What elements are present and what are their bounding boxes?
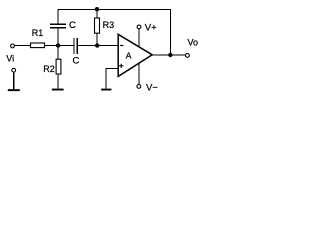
resistor R3	[95, 18, 100, 33]
svg-text:V+: V+	[145, 22, 157, 33]
wire node A to C2	[58, 45, 74, 47]
ground bar for + input	[101, 89, 111, 91]
wire C1 to top rail	[57, 9, 59, 24]
wire node A up to C1	[57, 28, 59, 46]
input terminal Vi	[11, 44, 15, 48]
V- terminal lead	[138, 63, 140, 84]
wire R1 to node A	[45, 45, 59, 47]
wire rail to R3	[96, 9, 98, 18]
svg-text:C: C	[73, 55, 80, 66]
V- terminal circle	[137, 85, 141, 89]
svg-text:C: C	[69, 20, 76, 31]
ground bar under R2	[52, 89, 64, 91]
op-amp A triangle	[118, 34, 152, 76]
svg-text:Vo: Vo	[188, 38, 199, 48]
svg-text:R2: R2	[43, 64, 55, 74]
junction on top rail	[95, 7, 99, 11]
V+ terminal circle	[137, 25, 141, 29]
output terminal Vo	[186, 54, 190, 58]
svg-text:V−: V−	[146, 83, 158, 94]
wire C2 to op-amp inverting input	[77, 45, 118, 47]
output junction dot	[168, 53, 172, 57]
svg-text:R3: R3	[103, 20, 115, 30]
ground bar at input	[8, 89, 20, 91]
top rail wire (output net)	[57, 9, 171, 11]
resistor R1	[31, 43, 45, 48]
svg-text:A: A	[126, 50, 132, 60]
wire lower terminal to ground	[13, 72, 15, 89]
op-amp plus input mark	[119, 64, 123, 68]
node B junction	[95, 43, 99, 47]
op-amp minus input mark	[120, 45, 123, 47]
V+ terminal lead	[138, 29, 140, 47]
node A junction	[56, 43, 60, 47]
wire op-amp + input	[106, 69, 118, 89]
feedback wire output up to top rail	[169, 9, 171, 55]
capacitor C1 (feedback cap)	[50, 24, 66, 28]
resistor R2	[56, 59, 61, 74]
wire input to R1	[15, 45, 31, 47]
wire R2 to ground	[57, 74, 59, 89]
svg-text:Vi: Vi	[6, 54, 14, 64]
wire R3 to node B	[96, 33, 98, 45]
svg-text:R1: R1	[32, 28, 44, 38]
output wire	[152, 54, 185, 56]
wire node A down to R2	[57, 46, 59, 60]
capacitor C2 (series cap)	[74, 38, 77, 54]
input lower terminal	[12, 68, 16, 72]
